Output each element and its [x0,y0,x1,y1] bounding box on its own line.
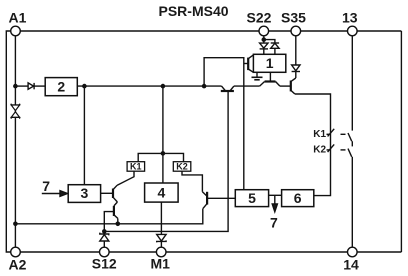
mech dash K2 b [341,149,346,151]
transistor QB upper [112,189,114,199]
svg-text:K1: K1 [313,129,326,140]
node at x=162.9 [161,84,166,89]
transistor T5 [206,192,208,205]
wire box 4 to M1 [160,202,162,234]
block box 4 [145,183,179,202]
terminal 13 [348,26,358,36]
diode at M1 [157,234,166,241]
wire S12 riser and QB lower base [104,212,114,234]
relay coil K1 [127,162,145,172]
mech dash K1 b [341,133,346,135]
node W1 junction on left rail [13,84,18,89]
wire QB upper collector to relay K1 box [117,171,134,185]
wire bottom rail [20,251,401,253]
diode D3 before box 2 [28,83,33,89]
wire H1 bus [15,209,202,224]
svg-text:K2: K2 [313,145,326,156]
svg-text:7: 7 [42,178,50,194]
wire S35 drop [295,36,297,65]
wire K connector [138,153,183,161]
block box 2 [45,78,77,96]
svg-text:K1: K1 [130,162,142,172]
svg-text:S22: S22 [247,10,272,26]
node K connector [161,151,166,156]
wire top rail A1 to S22 to S35 to 13 to right corner [20,30,401,32]
terminal 14 [348,247,358,257]
node H1 on left rail [13,222,18,227]
ground below box 1 [256,72,258,77]
terminal S22 [259,26,269,36]
node at x=204.1 [202,84,207,89]
block box 6 [282,190,314,207]
wire right rail [400,31,402,252]
wire box2 output to QA [77,85,221,87]
contact K2 blade [348,149,352,157]
relay coil K2 [173,162,191,172]
wire H2 bus [104,91,228,231]
wire T5 base to box 5 [207,197,235,199]
wire diode to box 2 [34,85,45,87]
diode D4 at S35 [292,65,300,71]
svg-text:6: 6 [294,190,302,206]
node S22 diodes [262,37,267,42]
mech slash K2 [328,144,335,152]
node S12 to H2 [102,229,107,234]
node on H1 [116,222,121,227]
diode D2 S22 up [264,40,275,43]
svg-text:PSR-MS40: PSR-MS40 [159,3,229,19]
arrow 7 into box 3 [42,193,62,195]
transistor QB lower [113,206,115,216]
terminal A1 [11,26,21,36]
svg-text:4: 4 [158,185,166,201]
svg-text:3: 3 [81,185,89,201]
wire S22 drop [263,36,265,43]
transistor QA center [221,90,234,92]
transistor T3 [290,81,292,92]
svg-text:M1: M1 [151,256,171,272]
svg-text:S12: S12 [92,256,117,272]
wire left inner rail A1-A2 [14,36,16,247]
wire box5 to box6 [269,194,282,196]
block box 5 [235,190,268,207]
diode D1 S22 down [260,43,268,48]
suppressor diode TVS on left rail [11,104,19,119]
wire T1 base tap [244,63,248,65]
transistor T1 [247,58,249,71]
terminal A2 [11,247,21,257]
mech slash K1 [328,129,335,137]
svg-text:S35: S35 [281,10,306,26]
wire QB lower emitter to H1 [117,218,119,223]
svg-text:2: 2 [57,78,65,94]
terminal S12 [100,247,110,257]
node at x=84.4 [82,84,87,89]
wire W1 from left rail to diode [15,85,28,87]
wire outer loop A1-A2 [6,31,10,252]
wire QA emitter to T2 [234,85,260,87]
svg-text:K2: K2 [176,162,188,172]
terminal M1 [156,247,166,257]
svg-text:1: 1 [266,55,274,71]
wire K2 to transistor T5 collector [182,171,202,192]
wire box3 to QB base [101,192,113,194]
transistor T2 below box 1 [269,72,271,81]
terminal S35 [291,26,301,36]
wire between contacts [351,141,353,146]
svg-text:7: 7 [270,214,278,230]
wire box6 to contact riser [295,94,331,196]
svg-text:A1: A1 [9,10,27,26]
wire drop to box 3 [83,86,85,185]
block box 3 [68,185,100,203]
wire contact to terminal 14 [351,157,353,247]
contact K1 blade [348,133,352,141]
svg-text:5: 5 [248,190,256,206]
wire 13 drop to contact [351,36,353,131]
wire tap up from W1 to T1 base and box5 input [204,58,244,190]
mech dash K2 a [327,149,330,151]
zener diode at S12 [100,233,109,236]
mech dash K1 a [327,133,330,135]
block box 1 [253,54,285,72]
wire drop to K relays and box 4 [162,86,164,183]
svg-text:A2: A2 [9,256,27,272]
svg-text:14: 14 [343,256,359,272]
arrow 7 output [274,195,276,204]
wire T2 to T3 base [280,85,291,87]
svg-text:13: 13 [342,10,358,26]
